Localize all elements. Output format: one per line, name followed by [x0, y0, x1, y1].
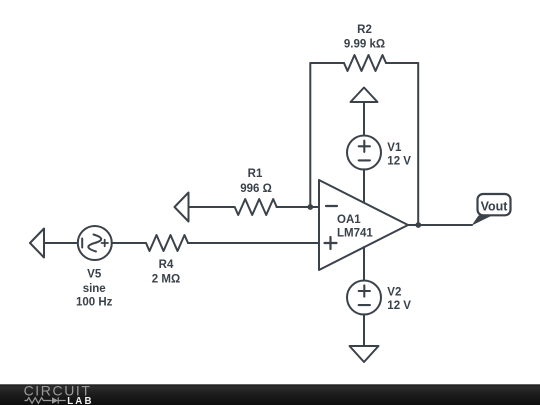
- svg-text:V1: V1: [387, 142, 402, 154]
- wire V1 to op-amp V+ pin: [363, 169, 365, 203]
- svg-text:R2: R2: [357, 24, 372, 36]
- label R2 9.99 kOhm: [344, 24, 385, 51]
- wire V5 to R4: [112, 242, 146, 244]
- resistor R4: [146, 235, 188, 251]
- svg-text:LM741: LM741: [337, 227, 373, 239]
- label V5 sine 100 Hz: [76, 269, 113, 309]
- label R4 2 MOhm: [152, 259, 180, 286]
- node Vout flag: [472, 194, 511, 226]
- voltage source V2: [347, 281, 381, 315]
- label V1 12 V: [387, 142, 411, 167]
- junction inverting node: [307, 204, 313, 210]
- wire V2 to ground: [363, 314, 365, 346]
- svg-text:996 Ω: 996 Ω: [240, 183, 272, 195]
- wire feedback right vertical: [417, 63, 419, 225]
- svg-text:Vout: Vout: [481, 199, 509, 213]
- svg-text:V2: V2: [387, 286, 401, 298]
- wire ground to R1: [189, 206, 235, 208]
- wire feedback left vertical: [309, 63, 311, 207]
- wire op-amp V- pin to V2: [363, 247, 365, 281]
- junction output node: [415, 222, 421, 228]
- CircuitLab logo: [24, 384, 94, 405]
- op-amp OA1: [319, 180, 408, 270]
- svg-text:sine: sine: [83, 283, 106, 295]
- ground (up, at V1 +): [351, 88, 378, 136]
- svg-text:9.99 kΩ: 9.99 kΩ: [344, 39, 385, 51]
- wire ground to V5: [44, 242, 78, 244]
- resistor R1: [235, 199, 277, 215]
- wire op-amp output: [408, 224, 472, 226]
- wire R2 loop top-right: [386, 62, 418, 64]
- wire R2 loop top-left: [310, 62, 344, 64]
- label OA1 LM741: [337, 214, 373, 239]
- resistor R2: [344, 55, 386, 71]
- label R1 996 Ohm: [240, 168, 272, 195]
- svg-text:2 MΩ: 2 MΩ: [152, 273, 180, 285]
- svg-text:12 V: 12 V: [387, 155, 411, 167]
- svg-text:OA1: OA1: [337, 214, 361, 226]
- label V2 12 V: [387, 286, 411, 312]
- svg-text:100 Hz: 100 Hz: [76, 297, 113, 309]
- ground (down, below V2): [350, 346, 379, 362]
- svg-text:R4: R4: [159, 259, 174, 271]
- voltage source V5 (sine): [78, 226, 112, 260]
- svg-text:12 V: 12 V: [387, 300, 411, 312]
- wire R4 to non-inverting input: [188, 242, 319, 244]
- svg-text:V5: V5: [87, 269, 102, 281]
- footer bar: [0, 384, 540, 405]
- wire R1 to inverting input: [277, 206, 320, 208]
- svg-text:R1: R1: [248, 168, 263, 180]
- svg-text:LAB: LAB: [67, 396, 94, 405]
- ground (left, at R1): [175, 193, 189, 222]
- voltage source V1: [347, 136, 381, 170]
- ground (left, at V5): [30, 229, 44, 258]
